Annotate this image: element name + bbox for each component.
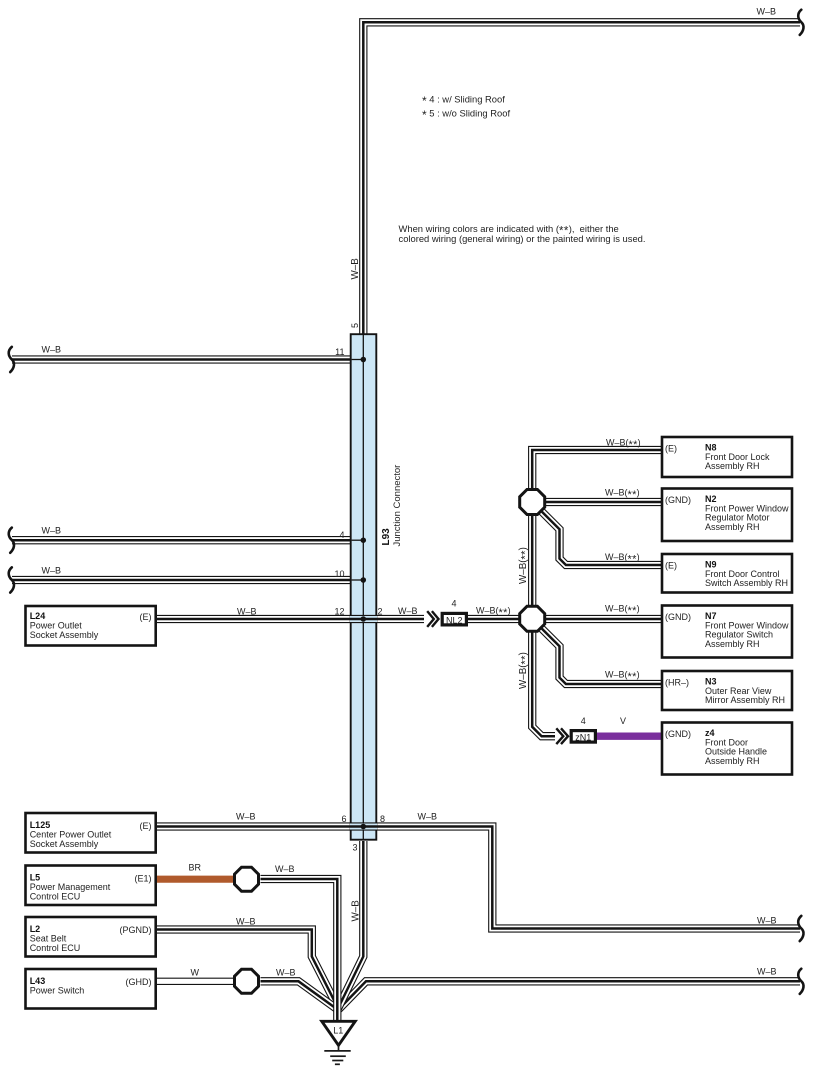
connector arrows before zN1	[556, 728, 568, 744]
svg-text:W–B: W–B	[757, 7, 777, 17]
junction dot pin 10	[361, 577, 367, 583]
svg-text:2: 2	[378, 607, 383, 617]
wire W-B L5 to ground L1	[261, 879, 338, 1020]
wire W-B L125 to pin 6	[156, 822, 351, 830]
svg-text:W–B: W–B	[236, 812, 256, 822]
component box L2 Seat Belt Control ECU	[26, 917, 156, 957]
svg-text:Assembly RH: Assembly RH	[705, 756, 760, 766]
svg-text:Junction Connector: Junction Connector	[392, 465, 403, 547]
svg-text:W–B: W–B	[42, 566, 62, 576]
svg-text:(HR–): (HR–)	[665, 678, 689, 688]
wire W-B L24 to pin 12	[156, 615, 351, 623]
svg-text:5: 5	[350, 323, 360, 328]
break symbol top right	[798, 10, 803, 35]
junction dot pin 4	[361, 537, 367, 543]
break symbol left 3	[9, 567, 14, 592]
wire W-B pin 8 to right body ground branch	[376, 827, 800, 929]
component box N2 Front Power Window Regulator Motor Assembly RH	[662, 489, 792, 542]
wire W-B to pin 4	[12, 536, 351, 544]
svg-text:W–B: W–B	[42, 345, 62, 355]
junction connector internal bus	[362, 335, 364, 839]
svg-text:(E1): (E1)	[134, 874, 151, 884]
wire W-B(**) splice 2 to zN1 arrows	[532, 632, 555, 736]
wire W-B L43 splice to ground	[261, 981, 338, 1009]
wire BR L5 to splice	[156, 876, 234, 883]
connector zN1	[571, 731, 595, 743]
svg-text:W–B: W–B	[42, 526, 62, 536]
junction dot pin 6	[361, 824, 367, 830]
svg-text:colored wiring (general wiring: colored wiring (general wiring) or the p…	[399, 233, 646, 244]
svg-text:L1: L1	[333, 1026, 343, 1036]
svg-text:(PGND): (PGND)	[120, 925, 152, 935]
component box N3 Outer Rear View Mirror Assembly RH	[662, 671, 792, 710]
connector NL2	[442, 613, 466, 625]
svg-text:(GND): (GND)	[665, 729, 691, 739]
svg-text:Socket Assembly: Socket Assembly	[30, 839, 99, 849]
svg-text:(E): (E)	[140, 612, 152, 622]
wire W-B L2 to ground	[156, 930, 338, 1008]
wire W-B(**) NL2 to splice	[468, 615, 520, 623]
wire W-B(**) splice 1 to N2	[545, 498, 663, 506]
junction dot pin 12	[361, 616, 367, 622]
splice octagon L5 row	[235, 867, 259, 891]
svg-text:(E): (E)	[665, 444, 677, 454]
svg-text:Socket Assembly: Socket Assembly	[30, 630, 99, 640]
svg-text:W: W	[191, 968, 200, 978]
svg-text:Assembly RH: Assembly RH	[705, 639, 760, 649]
junction connector L93 body	[351, 334, 377, 840]
break symbol left 2	[9, 528, 14, 553]
svg-text:W–B: W–B	[757, 916, 777, 926]
wire W-B(**) splice 1 to N9	[541, 511, 662, 565]
svg-text:W–B: W–B	[236, 917, 256, 927]
wire internal crossing pin 6-8	[350, 822, 377, 830]
connector arrows before NL2	[427, 611, 438, 627]
component box N7 Front Power Window Regulator Switch Assembly RH	[662, 606, 792, 658]
internal stub pin 10	[352, 579, 364, 581]
wire W-B(**) splice 2 to N7	[545, 615, 663, 623]
svg-text:W–B: W–B	[276, 968, 296, 978]
internal stub pin 4	[352, 539, 364, 541]
svg-text:Power Switch: Power Switch	[30, 985, 85, 995]
ground L1 triangle	[322, 1021, 355, 1045]
wire W-B from junction connector pin 5 to roof harness	[363, 22, 800, 334]
svg-text:W–B: W–B	[398, 606, 418, 616]
svg-text:L93: L93	[381, 528, 392, 546]
svg-text:Switch Assembly RH: Switch Assembly RH	[705, 578, 788, 588]
svg-text:Control ECU: Control ECU	[30, 943, 81, 953]
wire W-B(**) splice 1 to splice 2	[528, 515, 536, 606]
wire W-B pin 3 down	[338, 841, 363, 1009]
svg-text:zN1: zN1	[575, 733, 591, 743]
svg-text:6: 6	[341, 814, 346, 824]
svg-text:NL2: NL2	[446, 615, 463, 625]
junction dot pin 11	[361, 357, 367, 363]
svg-text:(E): (E)	[665, 561, 677, 571]
svg-text:W–B: W–B	[350, 900, 361, 922]
svg-text:Assembly RH: Assembly RH	[705, 522, 760, 532]
svg-text:Control ECU: Control ECU	[30, 891, 81, 901]
svg-text:4: 4	[581, 716, 586, 726]
svg-text:10: 10	[334, 569, 344, 579]
break symbol right low	[798, 969, 803, 994]
svg-text:12: 12	[334, 607, 344, 617]
svg-text:W–B: W–B	[237, 607, 257, 617]
svg-text:Mirror Assembly RH: Mirror Assembly RH	[705, 695, 785, 705]
wire internal crossing pin 12-2	[350, 615, 377, 623]
svg-text:W–B: W–B	[418, 812, 438, 822]
ground earth bars	[324, 1045, 350, 1064]
break symbol left 1	[9, 347, 14, 372]
wire W-B from right at L43 row	[339, 981, 801, 1009]
component box L24 Power Outlet Socket Assembly	[26, 606, 156, 646]
wire W-B to pin 11	[12, 355, 351, 363]
wire W-B(**) splice 1 to N8	[532, 450, 662, 490]
wire V zN1 to z4	[597, 733, 662, 740]
component box z4 Front Door Outside Handle Assembly RH	[662, 723, 792, 775]
component box L43 Power Switch	[26, 969, 156, 1009]
component box N9 Front Door Control Switch Assembly RH	[662, 554, 792, 593]
splice octagon L43 row	[235, 969, 259, 993]
wire W L43 to splice	[156, 978, 234, 985]
svg-text:11: 11	[335, 347, 344, 357]
svg-text:(GHD): (GHD)	[126, 977, 152, 987]
component box L5 Power Management Control ECU	[26, 866, 156, 906]
svg-text:4: 4	[339, 530, 344, 540]
svg-text:W–B: W–B	[275, 864, 295, 874]
break symbol right mid	[798, 916, 803, 941]
svg-text:Assembly RH: Assembly RH	[705, 461, 760, 471]
wire W-B(**) splice 2 to N3	[541, 628, 662, 684]
wire W-B to pin 10	[12, 576, 351, 584]
svg-text:4: 4	[451, 599, 456, 609]
svg-text:8: 8	[380, 814, 385, 824]
svg-text:(GND): (GND)	[665, 495, 691, 505]
svg-text:W–B: W–B	[350, 258, 361, 280]
splice octagon upper (door RH)	[520, 490, 545, 515]
svg-text:(E): (E)	[140, 821, 152, 831]
internal stub pin 11	[352, 359, 364, 361]
svg-text:3: 3	[352, 843, 357, 853]
component box L125 Center Power Outlet Socket Assembly	[26, 813, 156, 853]
svg-text:V: V	[620, 716, 626, 726]
wire W-B pin 2 to NL2 arrows	[376, 615, 424, 623]
svg-text:W–B: W–B	[757, 967, 777, 977]
svg-text:BR: BR	[189, 863, 202, 873]
svg-text:(GND): (GND)	[665, 612, 691, 622]
splice octagon lower (door RH)	[520, 606, 545, 631]
component box N8 Front Door Lock Assembly RH	[662, 437, 792, 477]
